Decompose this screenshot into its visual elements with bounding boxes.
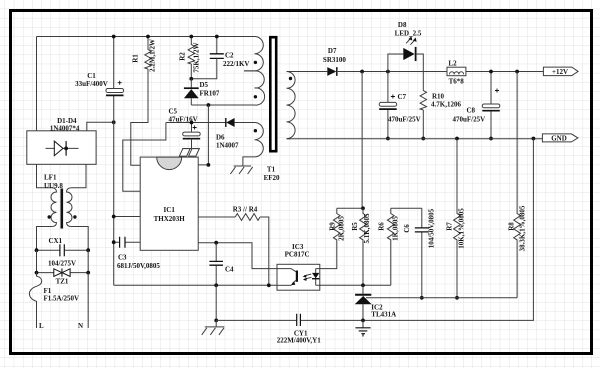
wire bridge minus to hot-ground rail xyxy=(87,122,114,131)
wire opto anode to R9 xyxy=(320,241,337,269)
svg-text:TL431A: TL431A xyxy=(371,310,396,318)
terminal L xyxy=(39,322,44,330)
svg-text:1N4007: 1N4007 xyxy=(216,141,239,149)
svg-text:222/1KV: 222/1KV xyxy=(223,60,249,68)
svg-text:LED_2.5: LED_2.5 xyxy=(395,30,422,38)
wire secondary output rail xyxy=(287,71,545,73)
svg-text:EF20: EF20 xyxy=(264,174,280,182)
svg-text:PC817C: PC817C xyxy=(285,251,310,259)
junction C2 top xyxy=(215,35,219,39)
varistor TZ1 xyxy=(37,268,89,285)
resistor R1 xyxy=(131,37,157,166)
junction C3 left xyxy=(112,240,116,244)
svg-text:681J/50V,0805: 681J/50V,0805 xyxy=(117,262,160,270)
fuse F1 xyxy=(29,273,79,328)
resistor R10 xyxy=(420,89,461,139)
transformer T1 core xyxy=(264,37,280,182)
common-mode choke LF1 xyxy=(37,164,89,250)
terminal N xyxy=(78,322,83,330)
capacitor C2 xyxy=(191,37,249,79)
junction CX1 left xyxy=(35,248,39,252)
wire secondary GND rail xyxy=(287,138,544,140)
junction secondary gnd drop xyxy=(532,137,536,141)
junction LED branch xyxy=(386,70,390,74)
junction C8 top xyxy=(489,70,493,74)
svg-text:GND: GND xyxy=(551,135,567,143)
wire hot ground vertical bus xyxy=(113,96,115,286)
svg-text:222M/400V,Y1: 222M/400V,Y1 xyxy=(277,337,322,345)
junction C4 bottom xyxy=(214,283,218,287)
wire IC1 GND pin xyxy=(114,216,141,218)
svg-text:104/50V,0805: 104/50V,0805 xyxy=(428,208,436,248)
svg-text:N: N xyxy=(78,322,83,330)
svg-text:5.1K,0805: 5.1K,0805 xyxy=(363,213,371,243)
diode D5 xyxy=(184,79,220,105)
junction bridge minus / C1 xyxy=(112,120,116,124)
junction R7 bottom xyxy=(455,296,459,300)
junction R1 top xyxy=(146,35,150,39)
wire hot ground rail to optocoupler xyxy=(114,284,277,286)
svg-text:L2: L2 xyxy=(448,59,457,67)
transformer T1 primary winding upper xyxy=(244,37,265,106)
chassis ground at C4 xyxy=(202,320,225,335)
svg-text:C5: C5 xyxy=(169,108,178,116)
chassis ground at C5 xyxy=(179,149,199,157)
earth ground secondary xyxy=(355,320,370,336)
wire opto cathode line xyxy=(320,284,391,286)
junction CX1 right xyxy=(86,248,90,252)
wire feedback tap down xyxy=(361,72,363,209)
svg-text:UU9.8: UU9.8 xyxy=(44,182,63,190)
junction R2 top xyxy=(189,35,193,39)
svg-text:R3 // R4: R3 // R4 xyxy=(233,206,258,214)
junction switch node xyxy=(207,103,211,107)
wire IC1 FB pin to opto xyxy=(198,243,277,269)
svg-text:FR107: FR107 xyxy=(200,90,220,98)
svg-text:104/275V: 104/275V xyxy=(48,260,76,268)
junction feedback tap xyxy=(360,70,364,74)
capacitor C1 xyxy=(75,37,123,96)
svg-text:C2: C2 xyxy=(225,52,234,60)
junction IC1 drain pin xyxy=(207,163,211,167)
svg-text:R7: R7 xyxy=(445,222,453,231)
junction TZ1 right xyxy=(86,271,90,275)
flag +12V xyxy=(543,67,578,76)
junction IC1 GND pin xyxy=(112,215,116,219)
svg-text:D8: D8 xyxy=(398,21,407,29)
LED D8 xyxy=(388,21,423,89)
wire C5 node horizontal xyxy=(166,122,226,124)
svg-text:CX1: CX1 xyxy=(49,237,63,245)
bridge rectifier D1-D4 xyxy=(27,117,96,165)
resistor R8 xyxy=(507,72,526,298)
junction C6 bottom xyxy=(420,296,424,300)
svg-text:C8: C8 xyxy=(467,107,476,115)
svg-text:D5: D5 xyxy=(200,81,209,89)
svg-text:R9: R9 xyxy=(329,222,337,231)
svg-text:+12V: +12V xyxy=(552,68,568,76)
svg-text:C4: C4 xyxy=(225,265,234,273)
svg-text:1N4007*4: 1N4007*4 xyxy=(50,124,80,132)
junction R5 top xyxy=(361,206,365,210)
junction source gnd node xyxy=(214,319,218,323)
svg-text:2K,0805: 2K,0805 xyxy=(338,216,346,241)
diode D7 xyxy=(323,47,346,76)
svg-text:4.7K,1206: 4.7K,1206 xyxy=(431,101,461,109)
capacitor C5 xyxy=(169,108,201,149)
capacitor C8 xyxy=(453,72,500,139)
svg-text:LF1: LF1 xyxy=(44,173,57,181)
resistor R5 xyxy=(351,208,371,285)
svg-text:C7: C7 xyxy=(398,93,407,101)
junction R10 bottom xyxy=(421,137,425,141)
junction C7 bottom xyxy=(386,137,390,141)
capacitor C6 xyxy=(403,208,436,297)
wire switch node xyxy=(191,104,254,106)
junction TZ1 left xyxy=(35,271,39,275)
svg-text:38.3K,1%,0805: 38.3K,1%,0805 xyxy=(519,205,527,251)
svg-text:33uF/400V: 33uF/400V xyxy=(75,80,108,88)
wire N lead xyxy=(87,273,89,328)
svg-text:2.2M,1/2W: 2.2M,1/2W xyxy=(149,39,157,72)
junction R8 top xyxy=(515,70,519,74)
wire bridge plus lead xyxy=(36,37,38,131)
wire VCC path C5 node to IC1 xyxy=(123,123,166,192)
resistor R2 xyxy=(179,37,201,79)
svg-text:470uF/25V: 470uF/25V xyxy=(388,116,421,124)
junction snubber node xyxy=(189,77,193,81)
wire switch node to IC1 drain pin xyxy=(198,105,208,165)
svg-text:R10: R10 xyxy=(432,93,445,101)
junction C5 top xyxy=(190,121,194,125)
svg-text:1K,0805: 1K,0805 xyxy=(392,216,400,241)
diode D6 xyxy=(216,118,252,149)
svg-text:T6*8: T6*8 xyxy=(449,77,465,85)
wire CX1 to TZ1 xyxy=(37,250,89,272)
IC1 THX203H xyxy=(140,157,198,250)
junction C4 top xyxy=(214,241,218,245)
svg-text:R2: R2 xyxy=(179,52,187,61)
resistor R3//R4 xyxy=(198,206,269,286)
svg-text:R6: R6 xyxy=(378,222,386,231)
resistor R9 xyxy=(329,208,346,241)
inductor L2 xyxy=(447,59,466,85)
junction C1 top xyxy=(112,35,116,39)
chassis ground at auxiliary winding xyxy=(230,166,252,174)
svg-text:THX203H: THX203H xyxy=(154,215,186,223)
junction R7 top xyxy=(455,137,459,141)
svg-text:470uF/25V: 470uF/25V xyxy=(453,116,486,124)
svg-text:75K,1/2W: 75K,1/2W xyxy=(193,42,201,72)
svg-text:T1: T1 xyxy=(267,165,276,173)
svg-text:L: L xyxy=(39,322,44,330)
junction R3R4 at rail xyxy=(267,283,271,287)
svg-text:IC1: IC1 xyxy=(164,206,176,214)
svg-text:10K,1%,0805: 10K,1%,0805 xyxy=(458,208,466,249)
resistor R7 xyxy=(445,139,465,298)
svg-text:R8: R8 xyxy=(507,222,515,231)
transformer T1 secondary winding xyxy=(287,72,296,139)
shunt regulator IC2 TL431A xyxy=(355,285,397,320)
wire common line left of CY1 xyxy=(216,319,297,321)
svg-text:C6: C6 xyxy=(403,224,411,233)
junction TL431 anode xyxy=(361,319,365,323)
junction TL431 cathode node xyxy=(361,283,365,287)
wire TL431 ref line xyxy=(366,297,517,299)
optocoupler IC3 PC817C xyxy=(277,243,320,290)
Y capacitor CY1 xyxy=(277,314,322,345)
svg-text:C3: C3 xyxy=(118,253,127,261)
resistor R6 xyxy=(378,208,400,285)
svg-text:TZ1: TZ1 xyxy=(56,277,69,285)
svg-text:R5: R5 xyxy=(351,222,359,231)
wire HV+ top rail xyxy=(37,36,254,38)
svg-text:R1: R1 xyxy=(132,54,140,63)
svg-text:F1.5A/250V: F1.5A/250V xyxy=(44,295,80,303)
wire source node down xyxy=(215,285,217,320)
svg-text:C1: C1 xyxy=(87,72,96,80)
svg-text:SR3100: SR3100 xyxy=(323,56,346,64)
flag GND xyxy=(542,134,578,143)
X capacitor CX1 xyxy=(37,237,89,267)
svg-text:D6: D6 xyxy=(216,133,225,141)
wire top feedback node xyxy=(337,207,363,209)
transformer T1 auxiliary winding xyxy=(235,123,264,166)
wire R6 C6 top link xyxy=(391,207,422,209)
capacitor C4 xyxy=(209,243,234,286)
capacitor C7 xyxy=(379,72,420,139)
wire secondary gnd drop to common line xyxy=(300,139,533,321)
junction C8 bottom xyxy=(489,137,493,141)
capacitor C3 xyxy=(114,237,161,270)
svg-text:D7: D7 xyxy=(328,47,337,55)
